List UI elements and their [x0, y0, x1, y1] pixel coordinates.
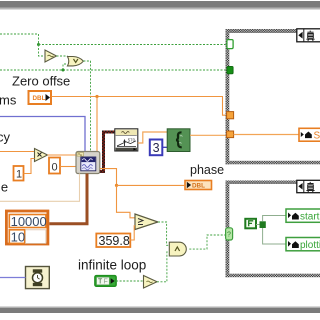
- wire: comparator output to AND: [158, 222, 169, 245]
- cluster constant: 10000 / 10: [6, 211, 48, 244]
- local variable: star: [286, 209, 320, 223]
- wire: NOT output to OR gate: [57, 55, 68, 57]
- svg-text:phase: phase: [190, 163, 224, 177]
- node: junction on rail 2: [62, 69, 65, 72]
- wire: OR output down into express VI top: [83, 61, 90, 152]
- svg-text:DBL: DBL: [192, 183, 205, 190]
- wire: branch down into express VI top: [96, 97, 98, 152]
- constant: 359.8: [96, 234, 130, 249]
- svg-text:10: 10: [11, 229, 25, 244]
- wire: tunnel to Signal local variable: [234, 134, 299, 136]
- wire: dynamic data from express VI to chart: [100, 132, 115, 172]
- svg-text:DBL: DBL: [33, 95, 46, 102]
- top gray bar: [0, 1, 320, 9]
- wire: boolean rail 2 from left edge to tunnel: [0, 69, 227, 71]
- case structure 2: left border: [226, 181, 230, 278]
- wire: TF to NOT gate: [116, 280, 143, 282]
- svg-text:T: T: [98, 279, 103, 286]
- local variable: plott: [286, 238, 320, 252]
- wire: junction up to star local variable: [263, 216, 286, 222]
- tunnel: orange lower on case 1: [227, 131, 234, 138]
- svg-text:10000: 10000: [11, 214, 47, 229]
- case structure 2: selector terminal: [226, 228, 233, 240]
- function: multiply: [35, 149, 48, 162]
- case structure 2: selector label [true]: [297, 180, 320, 192]
- svg-text:cy: cy: [0, 130, 11, 145]
- wire: NOT output up to AND lower input: [157, 252, 169, 282]
- wire: boolean feed entering left edge to rail 1: [0, 34, 39, 45]
- svg-text:infinite loop: infinite loop: [78, 258, 146, 273]
- case structure 2: bottom border: [226, 274, 320, 278]
- case structure 1: selector label [true]: [297, 29, 320, 42]
- wire: thick brown cluster wire: [49, 174, 87, 224]
- wire: constant 0 to express VI: [60, 166, 76, 168]
- svg-text:0: 0: [52, 162, 58, 174]
- svg-text:le: le: [0, 180, 8, 195]
- bottom gray bar: [0, 308, 320, 313]
- svg-text:start: start: [300, 212, 320, 223]
- wire: constant 3 to green node: [162, 146, 167, 148]
- wire: junction down to plott local variable: [263, 228, 286, 244]
- wire: rail 1 drop into NOT gate input: [39, 45, 46, 57]
- node: junction on output wire: [115, 184, 118, 187]
- wire: chart output to green conversion node: [138, 132, 167, 143]
- wire: millisecond wire into Wait: [0, 277, 26, 279]
- gate: OR U2: [68, 57, 84, 66]
- case structure 1: bottom border: [226, 161, 320, 165]
- svg-text:Zero offse: Zero offse: [12, 74, 70, 89]
- local variable: Signal: [299, 128, 320, 141]
- constant: boolean TF: [95, 276, 116, 287]
- constant: 0: [49, 158, 60, 174]
- wire: frequency input to multiply: [0, 151, 35, 153]
- tunnel: boolean hollow on case 1: [227, 40, 233, 49]
- constant: 1: [14, 166, 24, 181]
- gate: NOT U1: [45, 50, 57, 62]
- tunnel: boolean solid on case 1: [227, 66, 233, 73]
- svg-text:1: 1: [16, 169, 22, 181]
- gate: NOT lower: [144, 276, 158, 289]
- wire: faint amplitude wire into express VI bottom: [0, 174, 80, 202]
- wire: junction to phase indicator: [117, 184, 186, 186]
- svg-text:3: 3: [153, 141, 160, 155]
- wire: rail 2 rise to OR gate lower input: [63, 64, 68, 70]
- function: Wait ms timer: [26, 267, 50, 289]
- svg-text:plotti: plotti: [300, 240, 320, 251]
- svg-text:ms: ms: [0, 93, 17, 108]
- control terminal: Zero offset DBL: [29, 91, 52, 104]
- wire: boolean rail 1 to tunnel: [39, 44, 227, 46]
- indicator: waveform chart icon: [115, 129, 138, 151]
- case structure 2 (lower): top border: [226, 181, 320, 185]
- wire: junction down to comparator: [117, 185, 136, 217]
- tunnel: orange upper on case 1: [227, 112, 234, 119]
- case structure 1 (upper): top border: [226, 29, 320, 33]
- wire: blue rail into express VI: [0, 117, 85, 152]
- wire: AND output to case selector: [189, 235, 225, 249]
- node: junction on rail 1: [37, 43, 40, 46]
- constant: 3: [150, 140, 163, 156]
- svg-text:Si: Si: [314, 131, 320, 142]
- wire: express VI output down to junction: [100, 169, 117, 186]
- wire: Zero offset to case tunnel: [52, 97, 227, 116]
- node: junction on zero offset wire: [95, 95, 98, 98]
- svg-text:359.8: 359.8: [99, 234, 130, 248]
- svg-text:?: ?: [227, 232, 231, 239]
- wire: constant 1 to multiply lower input: [24, 159, 35, 174]
- wire: 359.8 to comparator lower input: [130, 226, 135, 240]
- wire: F constant to junction: [256, 224, 260, 226]
- function: greater or equal comparator: [135, 214, 158, 230]
- wire: multiply output to express VI: [48, 154, 77, 156]
- svg-text:F: F: [104, 279, 108, 286]
- constant: F boolean: [245, 219, 256, 229]
- gate: AND: [169, 242, 186, 256]
- node: junction square: [260, 221, 266, 228]
- wire: green node output to tunnel: [190, 134, 227, 136]
- express VI: Simulate Signal: [76, 152, 100, 174]
- indicator terminal: phase DBL: [185, 181, 212, 190]
- function: green conversion node: [167, 129, 190, 152]
- case structure 1: left border: [226, 29, 230, 164]
